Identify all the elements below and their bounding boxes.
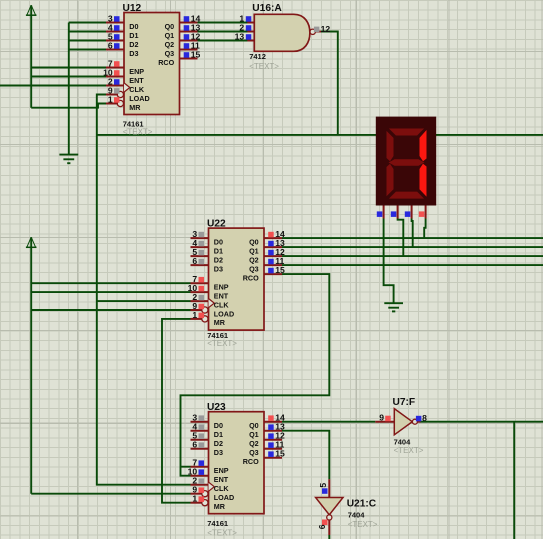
svg-text:12: 12 <box>321 24 331 34</box>
svg-text:D3: D3 <box>214 264 223 273</box>
wire U12 ENP to VCC rail <box>31 67 106 69</box>
wire U22 ENP to VCC rail <box>31 282 190 284</box>
wire U22 CLK branch <box>97 300 191 302</box>
svg-text:D1: D1 <box>214 246 223 255</box>
svg-text:Q1: Q1 <box>165 31 175 40</box>
wire U23 Q1 to U21:C input <box>282 431 329 480</box>
wire U7:F output to right edge <box>420 421 543 423</box>
svg-text:D2: D2 <box>214 255 223 264</box>
svg-text:1: 1 <box>108 94 113 104</box>
svg-text:LOAD: LOAD <box>214 309 234 318</box>
svg-text:MR: MR <box>129 103 141 112</box>
wire U12 Q2 to U16 pin13 <box>198 40 248 42</box>
svg-text:6: 6 <box>192 256 197 266</box>
svg-text:5: 5 <box>318 483 328 488</box>
wire U12 D3 <box>69 49 106 51</box>
ground <box>59 155 78 164</box>
svg-text:<TEXT>: <TEXT> <box>207 529 237 538</box>
wire display pin1 to ground <box>384 219 394 304</box>
counter U12 74161 <box>103 3 200 136</box>
svg-text:<TEXT>: <TEXT> <box>207 339 237 348</box>
wire U12 ENT to VCC rail <box>31 76 106 78</box>
wire display pin4 to Q0 <box>424 219 425 239</box>
svg-text:D2: D2 <box>214 439 223 448</box>
svg-text:U23: U23 <box>207 402 226 413</box>
wire U22 Q0 bus <box>282 237 543 239</box>
wire U12 D2 <box>69 40 106 42</box>
svg-text:CLK: CLK <box>129 85 145 94</box>
svg-text:D3: D3 <box>129 49 138 58</box>
svg-text:Q1: Q1 <box>249 430 259 439</box>
wire U22 MR to U23 MR link <box>162 319 191 503</box>
wire U22 Q2 bus <box>282 255 543 257</box>
svg-text:RCO: RCO <box>243 457 259 466</box>
wire U22 Q1 bus <box>282 246 543 248</box>
wire LOAD net horizontal to right edge <box>97 134 543 136</box>
svg-text:13: 13 <box>235 31 245 41</box>
wire display pin3 to Q1 <box>412 219 413 248</box>
svg-text:D0: D0 <box>129 22 138 31</box>
wire U21:C output to bottom edge <box>328 535 330 539</box>
svg-text:D0: D0 <box>214 237 223 246</box>
wire U12 MR to VCC rail <box>31 104 106 108</box>
svg-text:U12: U12 <box>123 3 142 14</box>
wire U12 Q0 to U16 pin1 <box>198 22 248 24</box>
wire U7:F output branch down to bottom edge <box>513 422 515 539</box>
svg-text:1: 1 <box>192 494 197 504</box>
wire U22 Q3 bus <box>282 264 543 266</box>
wire U22 RCO to U23 ENP/ENT <box>181 274 330 476</box>
wire U23 ENP branch <box>181 466 191 468</box>
svg-text:CLK: CLK <box>214 484 230 493</box>
svg-text:U16:A: U16:A <box>252 3 282 14</box>
svg-text:Q0: Q0 <box>249 237 259 246</box>
svg-text:LOAD: LOAD <box>129 94 149 103</box>
NAND gate U16:A 7412 <box>235 3 331 71</box>
svg-text:U21:C: U21:C <box>347 499 377 510</box>
svg-text:<TEXT>: <TEXT> <box>249 62 279 71</box>
svg-text:Q2: Q2 <box>249 255 259 264</box>
wire U22 ENT to VCC rail <box>31 291 190 293</box>
svg-text:ENT: ENT <box>214 291 229 300</box>
svg-text:Q2: Q2 <box>165 40 175 49</box>
svg-text:15: 15 <box>275 265 285 275</box>
power terminal VCC upper <box>26 5 37 108</box>
svg-text:Q3: Q3 <box>249 264 259 273</box>
counter U22 74161 <box>188 218 285 348</box>
svg-text:Q3: Q3 <box>249 448 259 457</box>
7-segment BCD display <box>376 117 436 219</box>
inverter U21:C 7404 <box>316 479 378 535</box>
ground <box>384 303 403 311</box>
svg-text:ENT: ENT <box>129 76 144 85</box>
svg-text:D1: D1 <box>129 31 138 40</box>
svg-text:Q2: Q2 <box>249 439 259 448</box>
svg-text:ENP: ENP <box>214 283 229 292</box>
svg-text:Q0: Q0 <box>165 22 175 31</box>
counter U23 74161 <box>188 402 285 538</box>
svg-text:8: 8 <box>422 413 427 423</box>
svg-text:CLK: CLK <box>214 300 230 309</box>
wire U12 Q1 to U16 pin2 <box>198 31 248 33</box>
svg-text:7412: 7412 <box>249 52 266 61</box>
svg-text:<TEXT>: <TEXT> <box>394 446 424 455</box>
wire U23 LOAD to VCC rail <box>31 493 190 495</box>
svg-text:Q1: Q1 <box>249 246 259 255</box>
svg-text:6: 6 <box>108 40 113 50</box>
svg-text:ENP: ENP <box>129 67 144 76</box>
svg-text:6: 6 <box>317 524 327 529</box>
svg-text:MR: MR <box>214 502 226 511</box>
svg-text:15: 15 <box>191 49 201 59</box>
wire LOAD net vertical (U12 LOAD / U22 CLK / U23 CLK) <box>97 95 191 485</box>
svg-text:Q0: Q0 <box>249 421 259 430</box>
svg-text:D0: D0 <box>214 421 223 430</box>
svg-text:74161: 74161 <box>207 519 228 528</box>
wire U22 LOAD to VCC rail <box>31 309 190 311</box>
svg-text:ENP: ENP <box>214 466 229 475</box>
svg-text:RCO: RCO <box>158 58 174 67</box>
svg-text:RCO: RCO <box>243 273 259 282</box>
svg-text:D3: D3 <box>214 448 223 457</box>
svg-text:U7:F: U7:F <box>393 397 416 408</box>
svg-text:<TEXT>: <TEXT> <box>123 128 153 137</box>
wire U12 D0 <box>69 22 106 24</box>
svg-text:7404: 7404 <box>348 511 366 520</box>
svg-text:15: 15 <box>275 449 285 459</box>
svg-text:6: 6 <box>192 440 197 450</box>
svg-text:MR: MR <box>214 318 226 327</box>
svg-text:D1: D1 <box>214 430 223 439</box>
svg-text:ENT: ENT <box>214 475 229 484</box>
svg-text:1: 1 <box>192 310 197 320</box>
wire display pin2 to Q2 <box>398 219 404 257</box>
inverter U7:F 7404 <box>375 397 427 455</box>
svg-text:<TEXT>: <TEXT> <box>348 520 378 529</box>
svg-text:D2: D2 <box>129 40 138 49</box>
svg-text:LOAD: LOAD <box>214 493 234 502</box>
wire U23 Q0 to U7:F input <box>282 421 375 423</box>
wire CLK input to U12 pin2 <box>0 85 106 87</box>
svg-text:9: 9 <box>379 413 384 423</box>
power terminal VCC lower <box>26 237 37 494</box>
wire U12 D1 <box>69 31 106 33</box>
wire D-input ground rail <box>68 23 70 155</box>
svg-text:U22: U22 <box>207 218 226 229</box>
svg-text:Q3: Q3 <box>165 49 175 58</box>
wire U16 output down to LOAD net <box>321 32 338 135</box>
